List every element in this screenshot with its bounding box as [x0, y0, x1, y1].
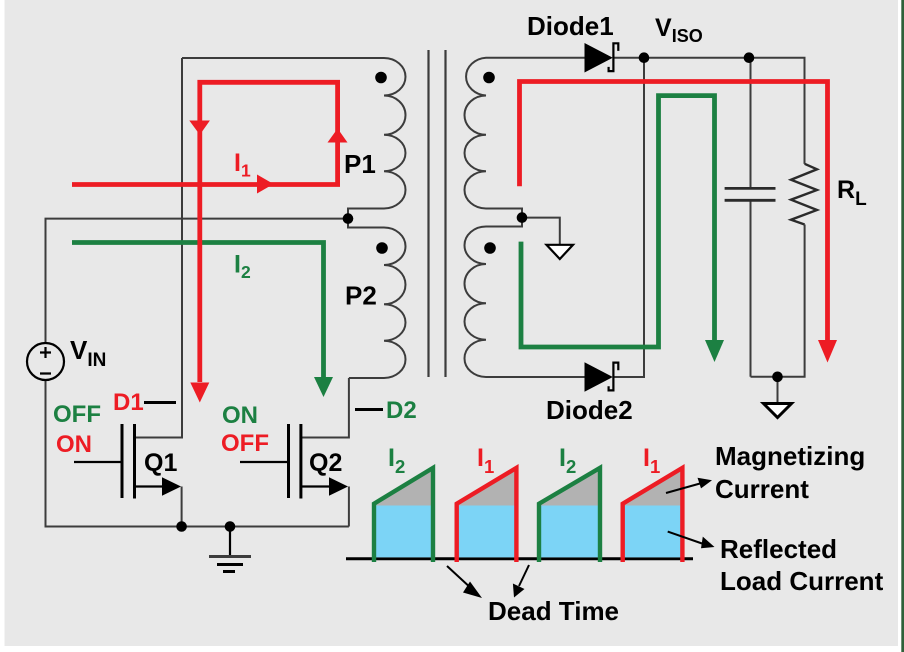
transformer secondary S1 [465, 58, 585, 215]
svg-text:P2: P2 [345, 281, 377, 311]
wire: Diode2 cathode up to VISO node [613, 58, 644, 377]
transformer core [429, 50, 446, 377]
svg-text:OFF: OFF [221, 430, 269, 457]
red current path I1 primary [72, 82, 338, 382]
svg-text:Diode1: Diode1 [527, 11, 614, 41]
svg-text:Q1: Q1 [144, 449, 177, 477]
wire: capacitor branch [750, 58, 752, 377]
transformer primary P2 [348, 221, 406, 378]
svg-text:Reflected: Reflected [720, 534, 837, 564]
wire: resistor bottom [751, 225, 805, 377]
diode Diode1 [585, 42, 619, 72]
svg-text:Dead Time: Dead Time [488, 596, 619, 626]
node rail ground [225, 521, 236, 532]
D2 drain tick [355, 408, 383, 411]
polarity dot S1 [483, 72, 495, 84]
wire: output ground stub [777, 377, 779, 403]
waveform baseline [346, 557, 693, 560]
ground (output) [764, 404, 792, 418]
node VISO left [639, 52, 650, 63]
svg-text:Magnetizing: Magnetizing [715, 441, 865, 471]
svg-text:Q2: Q2 [309, 449, 342, 477]
wire: Q1 drain up to transformer P1 [135, 58, 183, 438]
svg-text:Load Current: Load Current [720, 566, 884, 596]
waveform pulse 4 fill [623, 468, 683, 562]
green current path I2 primary [72, 243, 324, 379]
svg-text:P1: P1 [344, 149, 376, 179]
svg-text:Diode2: Diode2 [546, 395, 633, 425]
red arrow I1 secondary [818, 340, 837, 363]
transformer primary P1 [182, 58, 406, 215]
waveform pulse 2 fill [457, 468, 517, 562]
annotation arrow magnetizing [666, 478, 712, 493]
node Q1 source on rail [176, 521, 187, 532]
polarity dot S2 [484, 242, 496, 254]
wire: Q2 drain up to P2 [301, 378, 349, 438]
svg-text:OFF: OFF [53, 401, 101, 428]
D1 drain tick [144, 401, 176, 404]
svg-text:D1: D1 [113, 389, 144, 416]
red current path I1 secondary [520, 82, 828, 342]
ground (secondary center tap) [547, 245, 574, 259]
red arrow I1 end down [190, 383, 209, 403]
svg-text:ON: ON [56, 431, 92, 458]
waveform pulse 1 fill [374, 468, 433, 562]
node output ground [772, 372, 783, 383]
green page border [901, 0, 904, 652]
wire: VIN minus to ground rail [46, 380, 349, 527]
capacitor C [725, 188, 776, 200]
red arrow I1 up [328, 129, 348, 143]
svg-text:Current: Current [715, 474, 809, 504]
ground (main rail) [209, 527, 251, 572]
waveform pulse 3 fill [539, 468, 600, 562]
node secondary center tap [517, 212, 528, 223]
transistor Q1 [74, 424, 182, 527]
svg-text:ON: ON [222, 402, 258, 429]
red arrow I1 mid down [189, 121, 210, 135]
transistor Q2 [240, 424, 349, 527]
green current path I2 secondary [521, 96, 715, 347]
green arrow I2 secondary [705, 340, 724, 362]
source VIN [27, 343, 64, 380]
red arrow I1 right [257, 175, 274, 194]
polarity dot P2 [376, 242, 388, 254]
svg-text:D2: D2 [386, 397, 417, 424]
resistor RL [791, 164, 817, 225]
annotation arrow dead time left [447, 566, 482, 598]
transformer secondary S2 [465, 221, 585, 377]
node primary center tap [343, 213, 354, 224]
annotation arrow reflected [668, 532, 715, 549]
annotation arrow dead time right [513, 565, 529, 598]
node VISO right [744, 52, 755, 63]
polarity dot P1 [375, 72, 387, 84]
wire: secondary center tap to ground [522, 218, 560, 244]
green arrow I2 primary [314, 377, 333, 397]
wire: VISO rail [613, 58, 804, 164]
wire: VIN plus to primary center tap [46, 219, 345, 343]
diode Diode2 [585, 362, 619, 392]
